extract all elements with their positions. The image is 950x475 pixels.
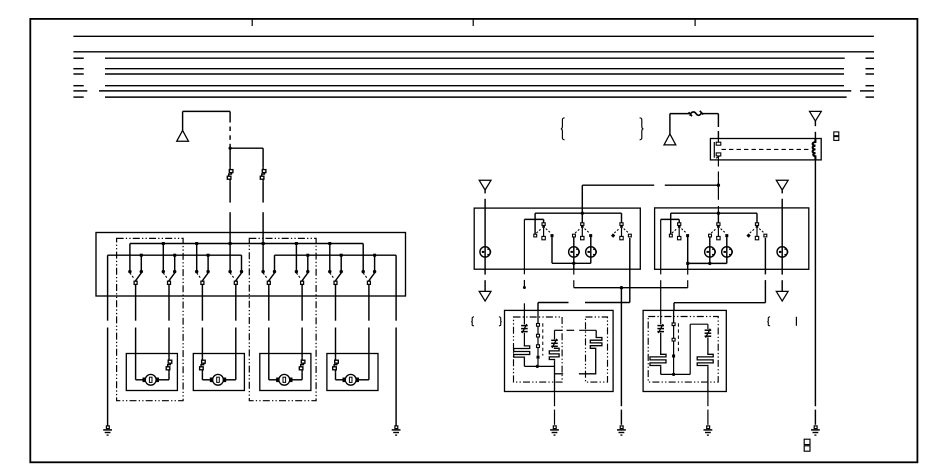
ground G6 <box>814 426 817 429</box>
switch SR3 (right box) <box>755 223 758 226</box>
wire A end drop to SW8 left contact <box>362 244 364 271</box>
ground G3 <box>553 426 556 429</box>
wire B right: ground bus for SW5-SW8 <box>275 254 397 256</box>
connector on M1 right lead <box>168 358 170 360</box>
switch SW3 (window lifter switch) <box>195 270 198 273</box>
junction + stub to SW2 left contact <box>162 242 165 245</box>
pivot link wire SR1 <box>661 218 680 220</box>
switch SR2 (right box) <box>717 223 720 226</box>
motor M3 <box>279 374 290 385</box>
wire right entry M4 <box>368 354 370 380</box>
B2 wire 1 with choke <box>660 310 662 324</box>
switch SW8 (window lifter switch) <box>362 270 365 273</box>
wire B left drop to left ground run <box>107 255 109 321</box>
connector dashed line B2 <box>677 323 679 352</box>
wire fuse to relay corner <box>703 113 718 115</box>
B2 bottom link <box>661 373 691 375</box>
switch SW1 (window lifter switch) <box>128 270 131 273</box>
ground G5 <box>707 426 710 429</box>
wire SR3 right terminal down and left <box>764 238 766 274</box>
switch SW7 (window lifter switch) <box>328 270 331 273</box>
ground G2 <box>395 426 398 429</box>
right lamp unit box <box>655 208 809 269</box>
wire SL1 pivot-link exits box down <box>523 219 525 274</box>
ground G4 <box>620 426 623 429</box>
junction + stub to SW7 right contact <box>340 254 343 257</box>
wire: horizontal feed split <box>230 147 263 149</box>
capacitor C4 <box>650 354 666 367</box>
relay K1 switch contact <box>713 142 715 158</box>
junction + stub to SW1 right contact <box>140 254 143 257</box>
motor M4 <box>345 374 356 385</box>
brace } (connector block) <box>640 118 644 140</box>
capacitor C2 <box>549 348 559 361</box>
wire SL1 right terminal down <box>551 237 553 263</box>
window switch unit box S1 <box>96 233 406 297</box>
lamp node exit down <box>573 263 575 269</box>
wire: vertical feed 1 upper (part dashed) <box>229 111 231 122</box>
wire: down into left lamp box <box>581 185 583 213</box>
B2 wire 2 with connector pins <box>673 310 675 323</box>
connector code squares (relay) <box>834 132 839 136</box>
bus line 5 <box>73 73 83 75</box>
dash-dot inner boundary B1a <box>514 317 563 382</box>
ground G1 <box>106 426 109 429</box>
wire relay coil to ground (long) <box>814 160 816 406</box>
connector from bus (triangle down) <box>810 111 822 121</box>
wire: feed 2 down to connector <box>262 148 264 167</box>
connector down (left feed) (triangle down) <box>479 180 491 190</box>
wire: triangle up to corner and across <box>182 111 184 130</box>
bus line 7 <box>73 90 87 92</box>
connector ignition feed (triangle up) <box>664 134 676 145</box>
fuse F1 <box>689 111 704 116</box>
wire left entry M4 <box>335 354 337 358</box>
wire A: feed bus inside switch box <box>130 243 363 245</box>
junction on wire A at feed 2 <box>262 242 265 245</box>
B2 up-over-down link <box>689 324 691 374</box>
wire SR1 right terminal down (node) <box>686 262 689 265</box>
wire C feed inside left box <box>535 212 621 214</box>
switch SW4 (window lifter switch) <box>228 270 231 273</box>
wire: relay branch down into right lamp box <box>717 185 719 200</box>
connector C1 on feed 1 <box>229 167 231 169</box>
dash-dot inner boundary B1b <box>586 317 608 382</box>
B1 spine top link <box>555 329 563 331</box>
junction + stub to SW7 left contact <box>328 242 331 245</box>
junction + stub to SW6 right contact <box>306 254 309 257</box>
wire through box to side lamp <box>484 208 486 269</box>
connector from battery feed (triangle up) <box>177 130 189 141</box>
bus line 3 <box>73 57 83 59</box>
switch SR1 (right box) <box>678 223 681 226</box>
wire: feed 1 down to connector <box>229 148 231 167</box>
switch SW6 (window lifter switch) <box>295 270 298 273</box>
lamp node bus <box>688 262 727 264</box>
window motor unit M2 box <box>193 354 244 391</box>
side lamp L <box>480 247 490 257</box>
dash-dot inner boundary B2 <box>648 317 718 383</box>
lamp R2 <box>722 247 732 257</box>
lamp chain 2 <box>590 237 592 263</box>
side lamp R <box>777 247 787 257</box>
lamp L2 <box>586 247 596 257</box>
left lamp unit box <box>474 208 640 269</box>
wire C feed inside right box <box>671 212 757 214</box>
wire below to end triangle <box>484 269 486 274</box>
relay K1 coil <box>813 139 816 160</box>
wire SR1 pivot-link exits box down <box>660 219 662 274</box>
switch SW5 (window lifter switch) <box>261 270 264 273</box>
motor M2 <box>213 374 224 385</box>
wire B right end drop to right ground run <box>395 255 397 321</box>
switch SL3 (left box) <box>620 223 623 226</box>
wire A end drop to SW1 left contact <box>129 244 131 271</box>
interconnect wire between boxes (to ground) <box>574 287 688 289</box>
B2 to ground <box>707 392 709 407</box>
dash-dot boundary: front left door unit <box>117 238 184 400</box>
junction + stub to SW6 left contact <box>295 242 298 245</box>
wire left entry M1 <box>135 354 137 380</box>
wire right entry M3 <box>301 354 303 358</box>
wire left entry M3 <box>268 354 270 380</box>
capacitor C1 <box>514 345 530 358</box>
switch SW2 (window lifter switch) <box>162 270 165 273</box>
wire left entry M2 <box>201 354 203 358</box>
lamp chain 1 <box>573 237 575 263</box>
relay K1 actuation dashed link <box>722 148 811 150</box>
window motor unit M3 box <box>260 354 311 391</box>
lamp L1 <box>569 247 579 257</box>
window motor unit M1 box <box>126 354 177 391</box>
choke L2 <box>551 339 558 341</box>
wire SL3 right terminal down and left <box>629 238 631 303</box>
connector code squares (bottom) <box>804 439 810 444</box>
wire B left: ground bus for SW1-SW4 <box>108 254 242 256</box>
connector dashed line B1 <box>542 323 544 355</box>
choke L1 <box>521 325 528 327</box>
brace { (connector block) <box>561 118 565 140</box>
connector down (right end) (triangle down) <box>776 291 788 301</box>
small brace pair right <box>767 317 770 326</box>
junction + stub to SW2 right contact <box>173 254 176 257</box>
small brace pair left <box>471 317 474 326</box>
B1 spine to ground <box>554 392 556 407</box>
bus line 2 <box>73 51 874 53</box>
capacitor C5 <box>697 354 713 367</box>
ground run left break resume <box>107 328 109 427</box>
wire up from triangle and across to relay <box>669 114 671 134</box>
window motor unit M4 box <box>327 354 378 391</box>
suppressor unit box B2 <box>643 310 726 391</box>
connector down (right feed) (triangle down) <box>776 180 788 190</box>
connector C2 on feed 2 <box>262 167 264 169</box>
wire B right start drop to SW5 right contact <box>274 255 276 270</box>
lamp R1 <box>705 247 715 257</box>
lamp chain R1 <box>709 237 711 264</box>
B1 bottom node <box>524 365 554 367</box>
fold tick marks on top border <box>251 20 253 27</box>
pivot link wire SW-L1 <box>524 218 543 220</box>
ground run right break resume <box>395 328 397 427</box>
wire: junction across to left lamp box <box>582 184 654 186</box>
motor M1 <box>145 374 156 385</box>
lamp chain R2 <box>726 237 728 264</box>
junction + stub to SW3 left contact <box>195 242 198 245</box>
suppressor unit box B1 <box>505 310 614 391</box>
bus line 6 <box>73 85 83 87</box>
connector on M2 left lead <box>201 358 203 360</box>
relay K1 box <box>710 139 821 160</box>
switch SL2 (left box) <box>581 223 584 226</box>
wire B left end drop to SW4 right contact <box>241 255 243 270</box>
wire right entry M2 <box>235 354 237 380</box>
connector on M3 right lead <box>301 358 303 360</box>
bus line 4 <box>73 68 83 70</box>
B1 wire 2 with connector pins <box>537 310 539 323</box>
junction on wire A at feed 1 <box>229 242 232 245</box>
wire: feed 1 to switch box <box>229 182 231 203</box>
capacitor C3 (separate dash-dot) <box>579 330 602 374</box>
wire right entry M1 <box>168 354 170 358</box>
connector on M4 left lead <box>335 358 337 360</box>
wire: feed 2 to switch box <box>262 182 264 203</box>
bus line 1 <box>73 35 874 37</box>
bus line 8 <box>73 96 83 98</box>
wire: relay switch down to junction <box>717 160 719 167</box>
choke L4 <box>705 329 712 331</box>
switch SL1 (left box) <box>542 223 545 226</box>
choke L3 <box>657 325 664 327</box>
junction + stub to SW8 right contact <box>373 254 376 257</box>
connector down (left end) (triangle down) <box>479 291 491 301</box>
junction + stub to SW3 right contact <box>207 254 210 257</box>
node junction at feed split <box>229 147 232 150</box>
dash-dot boundary: front right door unit <box>249 238 316 400</box>
node exit down <box>687 263 689 269</box>
B1 wire 1 with choke <box>523 310 525 324</box>
